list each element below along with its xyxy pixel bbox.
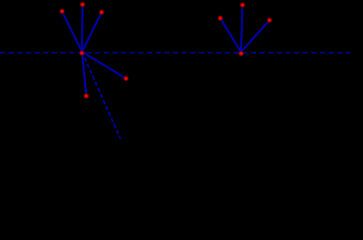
wire C2-Q1 bbox=[220, 18, 241, 52]
node Q1 bbox=[217, 15, 223, 21]
node C1 bbox=[79, 50, 85, 56]
dashed wire C1 to bottom edge bbox=[82, 52, 121, 139]
node P4 bbox=[123, 75, 129, 81]
node P5 bbox=[83, 93, 89, 99]
node Q3 bbox=[266, 17, 272, 23]
wire C1-P3 bbox=[82, 12, 102, 52]
wire C1-P2 bbox=[81, 5, 84, 52]
wire C1-P4 bbox=[82, 52, 126, 79]
wire C1-P1 bbox=[62, 11, 82, 52]
wire C2-Q3 bbox=[241, 20, 270, 52]
wire C2-Q2 bbox=[241, 5, 243, 52]
node P2 bbox=[79, 1, 85, 7]
node P1 bbox=[59, 8, 65, 14]
node P3 bbox=[98, 9, 104, 15]
wire C1-P5 bbox=[82, 52, 86, 96]
horizontal dashed axis bbox=[0, 52, 351, 54]
node Q2 bbox=[239, 2, 245, 8]
node C2 bbox=[238, 50, 244, 56]
